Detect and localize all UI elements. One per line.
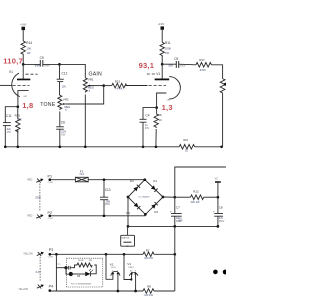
triode V1a (0, 64, 38, 106)
resistor R8 (143, 285, 175, 297)
svg-text:100 1W: 100 1W (144, 257, 153, 260)
wire bridge plus to node (163, 196, 175, 198)
DC minus from bridge left corner (127, 197, 129, 226)
plate dashes (26, 73, 38, 75)
svg-text:47u: 47u (219, 217, 224, 220)
svg-text:9: 9 (135, 271, 136, 273)
plate dashes left (147, 73, 155, 75)
node fuse/C10 (103, 178, 106, 181)
svg-text:100 1W: 100 1W (144, 294, 153, 297)
svg-text:C12: C12 (62, 72, 68, 76)
svg-text:R6: R6 (158, 113, 162, 117)
AC2 bus from P2 to bridge bottom (51, 215, 146, 217)
svg-text:C10: C10 (105, 188, 111, 192)
svg-text:V1: V1 (156, 72, 160, 76)
svg-text:C6: C6 (61, 120, 65, 124)
svg-text:CON2: CON2 (48, 218, 53, 220)
wire to GAIN pot (60, 64, 86, 77)
P2 terminal (48, 211, 54, 220)
svg-text:250V: 250V (180, 64, 186, 67)
svg-text:93,1: 93,1 (139, 61, 155, 70)
svg-text:470K: 470K (200, 68, 206, 72)
grid line (126, 85, 148, 87)
svg-text:C11: C11 (6, 114, 12, 118)
svg-text:A: A (65, 109, 67, 112)
svg-text:22N: 22N (61, 131, 66, 134)
svg-text:YELLOW: YELLOW (18, 289, 28, 291)
svg-text:CON3: CON3 (48, 257, 53, 259)
svg-text:D1: D1 (153, 179, 157, 183)
svg-text:MEG: MEG (88, 86, 94, 90)
bridge rectifier (126, 178, 164, 215)
tube heater V2 (106, 254, 120, 291)
svg-text:4 x 1N4007: 4 x 1N4007 (138, 197, 150, 199)
offpage arrow to P1 (36, 179, 43, 183)
power symbol VC (215, 178, 221, 198)
resistor R7 (143, 248, 175, 260)
potentiometer volume right edge (220, 79, 227, 94)
plate bar (155, 79, 170, 81)
resistor R11 (160, 41, 171, 56)
svg-text:4,5: 4,5 (130, 271, 133, 273)
svg-text:TONE: TONE (40, 102, 56, 108)
diamond wires (128, 180, 163, 215)
capacitor C5 (162, 57, 196, 68)
svg-text:R15: R15 (115, 79, 121, 83)
svg-text:10K: 10K (27, 47, 32, 51)
svg-text:C8: C8 (219, 206, 223, 210)
svg-text:470K: 470K (117, 87, 123, 91)
svg-text:6.3V: 6.3V (36, 271, 41, 274)
wire VR1 wiper (90, 85, 104, 87)
svg-text:4: 4 (112, 270, 113, 272)
node C9/C12/GAIN junction (58, 63, 61, 66)
earth terminal box (121, 226, 135, 246)
svg-text:2W: 2W (89, 260, 92, 262)
pilot breakaway dashed box (56, 258, 102, 287)
wire R14 to node (22, 56, 24, 65)
svg-text:V2: V2 (110, 262, 114, 266)
diode D4 bottom-left (134, 203, 139, 208)
svg-text:22u: 22u (7, 128, 12, 131)
svg-text:YELLOW: YELLOW (23, 254, 33, 256)
wire R17 to pot (211, 65, 222, 79)
svg-text:16.0R: 16.0R (78, 260, 84, 262)
plate bar (17, 79, 30, 81)
node 110.7 junction (22, 63, 25, 66)
plate lead (22, 64, 24, 78)
svg-text:16V: 16V (7, 132, 12, 134)
node wiper junction (102, 84, 105, 87)
svg-text:110,7: 110,7 (3, 57, 23, 66)
svg-text:VR1: VR1 (88, 77, 94, 81)
resistor R15 grid stopper (104, 79, 127, 90)
P1 terminal (48, 175, 54, 185)
svg-text:1K: 1K (159, 118, 162, 122)
svg-text:RED: RED (27, 215, 32, 217)
fuse F1 (75, 169, 88, 182)
svg-text:5: 5 (117, 270, 118, 272)
envelope arc (12, 73, 20, 96)
svg-text:R10: R10 (15, 113, 21, 117)
svg-text:MEG: MEG (64, 105, 70, 109)
diode D3 top-left (133, 187, 138, 192)
svg-text:D2: D2 (154, 210, 158, 214)
svg-text:10V: 10V (62, 85, 67, 88)
wire wiper to tone wiper (65, 86, 104, 104)
tube heater V1 (124, 254, 138, 291)
svg-text:C9: C9 (40, 56, 44, 60)
resistor R10 (15, 107, 22, 147)
potentiometer VR1 GAIN (83, 77, 94, 92)
svg-text:CAT: CAT (23, 95, 28, 98)
svg-text:6N8: 6N8 (35, 64, 40, 68)
svg-text:1W: 1W (27, 51, 31, 55)
svg-text:36V: 36V (178, 220, 183, 223)
pilot light branch (55, 254, 57, 291)
node 93,1 junction (161, 63, 164, 66)
wire VR1 bottom to bus (84, 95, 86, 147)
power VCC1 top-left (20, 24, 27, 41)
DC minus bus (128, 225, 218, 227)
node cathode 1,8 (16, 105, 19, 108)
svg-text:10: 10 (185, 149, 188, 153)
envelope arc (169, 77, 180, 99)
svg-text:T1A: T1A (79, 172, 84, 176)
svg-text:22K 1W: 22K 1W (191, 201, 201, 204)
node cathode 1,3 (155, 106, 158, 109)
offpage arrow to P2 (36, 214, 43, 218)
svg-text:V1: V1 (9, 70, 13, 74)
heater bottom bus (51, 290, 143, 292)
svg-text:+: + (170, 210, 172, 214)
potentiometer VR2 TONE (58, 95, 71, 111)
svg-text:1,3: 1,3 (162, 103, 173, 112)
svg-text:P2: P2 (48, 211, 53, 215)
capacitor C8 (213, 197, 225, 226)
resistor R14 (21, 41, 32, 56)
svg-text:12AX7: 12AX7 (128, 266, 134, 269)
offpage arrow to P4 (37, 284, 44, 288)
svg-text:V1: V1 (127, 262, 131, 266)
plate lead (161, 64, 163, 78)
svg-text:450V: 450V (219, 221, 225, 223)
svg-text:P4: P4 (49, 285, 54, 289)
svg-text:VC: VC (215, 178, 219, 181)
svg-text:1,8: 1,8 (22, 101, 33, 110)
LED D6 (85, 272, 90, 277)
svg-text:EL84: EL84 (111, 267, 115, 269)
svg-text:R14: R14 (26, 41, 32, 45)
black dot left (213, 270, 218, 275)
svg-text:VR2: VR2 (63, 97, 69, 101)
black dot right (223, 270, 228, 275)
capacitor C10 (100, 180, 111, 216)
capacitor C4 (140, 108, 157, 147)
svg-text:A: A (89, 89, 91, 92)
svg-text:1u: 1u (145, 124, 148, 127)
power VCC2 top-right (158, 24, 165, 42)
ground bus preamp (5, 146, 180, 148)
svg-text:1K5: 1K5 (17, 117, 22, 121)
capacitor C11 (3, 107, 18, 147)
svg-text:400V: 400V (105, 204, 111, 206)
diode D1 top-right (151, 185, 156, 190)
wire DC plus to right edge (175, 167, 226, 197)
P3 terminal (48, 248, 53, 259)
svg-text:R8: R8 (147, 285, 151, 289)
svg-text:100K: 100K (165, 47, 171, 51)
svg-text:R7: R7 (146, 248, 150, 252)
resistor R18 in bus (179, 139, 221, 153)
diode D2 bottom-right (151, 204, 156, 209)
cathode (18, 91, 29, 107)
svg-text:+248V: +248V (20, 24, 27, 26)
svg-text:R11: R11 (165, 41, 171, 45)
heater top bus (51, 253, 143, 255)
svg-text:R12: R12 (193, 189, 199, 193)
svg-text:C4: C4 (145, 113, 149, 117)
svg-text:10N: 10N (106, 200, 111, 203)
pilot wiring (56, 267, 66, 269)
svg-text:+: + (213, 210, 215, 214)
triode V1b (126, 64, 181, 107)
grid line (0, 84, 12, 86)
svg-text:TP1: TP1 (57, 264, 60, 266)
svg-text:CON1: CON1 (48, 182, 53, 184)
svg-text:10N: 10N (168, 63, 173, 67)
capacitor C9 (23, 56, 59, 67)
svg-text:D3: D3 (130, 179, 134, 183)
resistor R12 (175, 189, 218, 204)
svg-text:240V: 240V (44, 65, 50, 68)
svg-text:R18: R18 (183, 139, 188, 142)
svg-text:PILOT BREAKAWAY: PILOT BREAKAWAY (71, 283, 92, 286)
svg-text:63V: 63V (61, 134, 66, 136)
svg-text:+248V: +248V (158, 24, 165, 26)
svg-text:P1: P1 (48, 175, 53, 179)
wire pot to bus (222, 94, 224, 147)
svg-text:C7: C7 (176, 206, 180, 210)
svg-text:P3: P3 (49, 248, 54, 252)
svg-text:1W: 1W (165, 51, 169, 55)
resistor R17 (196, 58, 211, 72)
cathode (157, 93, 167, 107)
transformer dashed heater (36, 257, 41, 281)
svg-text:RED: RED (27, 179, 32, 181)
svg-text:MAINS: MAINS (122, 237, 130, 240)
svg-text:R17: R17 (199, 58, 205, 62)
resistor R6 (154, 108, 162, 147)
capacitor C7 (170, 197, 182, 226)
svg-text:250V: 250V (35, 196, 41, 199)
transformer secondary dashed (35, 184, 41, 212)
svg-text:C5: C5 (174, 57, 178, 61)
svg-text:D6: D6 (77, 275, 81, 278)
P4 terminal (49, 285, 54, 292)
svg-text:63V: 63V (145, 128, 150, 130)
heater ground vertical (174, 226, 176, 291)
capacitor C12 (57, 64, 68, 95)
capacitor C6 (56, 111, 66, 146)
offpage arrow to P3 (37, 252, 44, 256)
